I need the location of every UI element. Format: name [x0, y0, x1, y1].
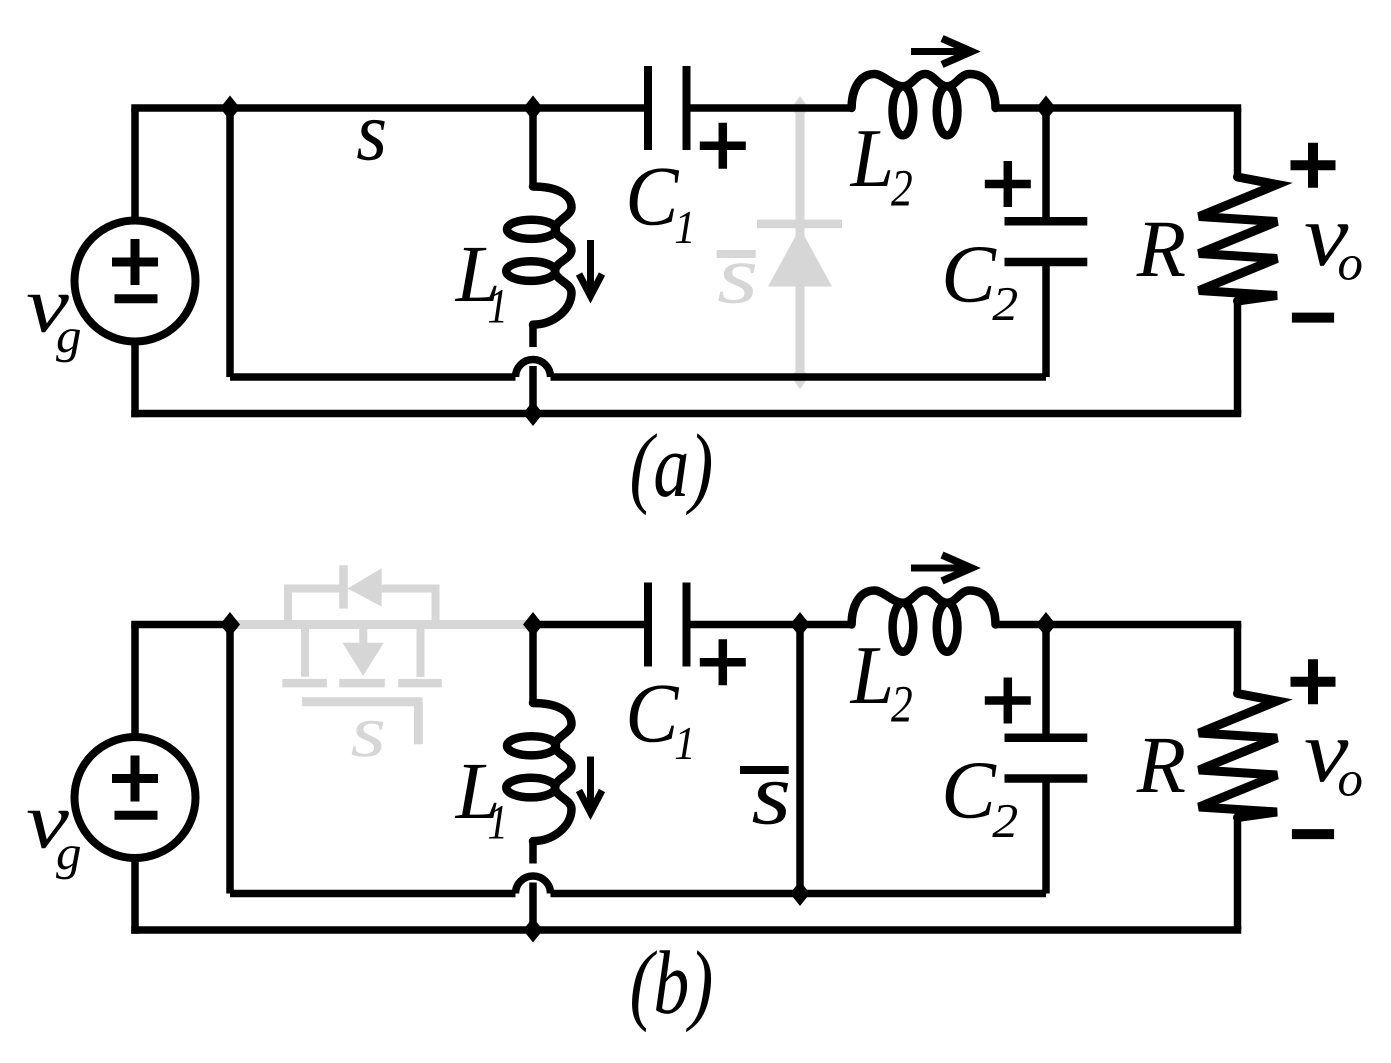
- svg-text:1: 1: [674, 718, 695, 770]
- svg-text:s: s: [717, 230, 758, 322]
- svg-text:g: g: [56, 827, 82, 880]
- svg-text:o: o: [1337, 752, 1362, 807]
- svg-text:2: 2: [891, 676, 913, 734]
- svg-text:s: s: [350, 690, 386, 773]
- svg-text:R: R: [1136, 204, 1186, 294]
- svg-text:1: 1: [487, 794, 508, 849]
- svg-text:s: s: [751, 745, 791, 843]
- svg-text:2: 2: [992, 794, 1018, 848]
- svg-text:C: C: [941, 745, 997, 836]
- svg-text:1: 1: [674, 202, 695, 254]
- svg-text:s: s: [356, 86, 387, 179]
- svg-text:2: 2: [992, 277, 1018, 331]
- svg-text:(b): (b): [630, 932, 714, 1033]
- svg-text:C: C: [625, 666, 680, 760]
- svg-text:2: 2: [891, 160, 913, 218]
- svg-text:L: L: [850, 630, 894, 722]
- svg-text:C: C: [625, 149, 680, 243]
- svg-text:L: L: [850, 113, 894, 205]
- svg-text:R: R: [1136, 720, 1186, 810]
- svg-text:g: g: [56, 310, 82, 363]
- svg-text:1: 1: [487, 278, 508, 333]
- svg-text:C: C: [941, 229, 997, 320]
- svg-text:(a): (a): [630, 415, 714, 516]
- svg-text:o: o: [1337, 236, 1362, 291]
